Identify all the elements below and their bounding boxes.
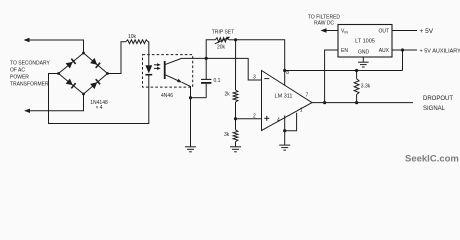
optocoupler U2 4N46 dashed package bbox=[143, 55, 193, 88]
resistor 3k bbox=[235, 119, 237, 130]
svg-text:3: 3 bbox=[253, 75, 256, 81]
node: divider / plus input bbox=[234, 117, 237, 120]
svg-text:2k: 2k bbox=[225, 92, 231, 98]
wire EN to output bbox=[325, 50, 338, 103]
svg-text:10k: 10k bbox=[128, 34, 137, 40]
svg-text:SIGNAL: SIGNAL bbox=[423, 106, 446, 112]
svg-text:0.1: 0.1 bbox=[214, 78, 221, 84]
wire negative DC rail: left vertex down and right to opto LED cathode bbox=[49, 74, 149, 124]
ground G1 bbox=[185, 146, 196, 148]
wire node up to trimpot left end bbox=[206, 40, 215, 59]
wire pot right lead bbox=[229, 39, 236, 41]
bridge diode D-LR (bottom to right) bbox=[90, 82, 97, 89]
comparator output pin 7 line bbox=[312, 102, 413, 104]
svg-text:1: 1 bbox=[300, 107, 303, 113]
svg-text:POWER: POWER bbox=[10, 74, 29, 80]
wire pin3 node to comparator minus input bbox=[206, 58, 261, 80]
svg-text:3.3k: 3.3k bbox=[361, 84, 371, 90]
svg-text:8: 8 bbox=[286, 70, 289, 76]
wire resistor to LED anode bbox=[147, 42, 150, 65]
bridge rectifier CR1 1N4148 x4 : edges bbox=[59, 53, 108, 94]
svg-text:2: 2 bbox=[253, 114, 256, 120]
node: pot / 2k / supply bbox=[234, 38, 237, 41]
bridge diode D-UR (top to right) bbox=[90, 58, 97, 65]
VIN input wire + arrow bbox=[327, 30, 339, 32]
svg-text:RAW DC: RAW DC bbox=[314, 21, 334, 27]
svg-text:AUX: AUX bbox=[379, 48, 390, 54]
svg-text:20k: 20k bbox=[217, 44, 226, 50]
node: emitter/cap ground junction bbox=[189, 96, 192, 99]
svg-text:VIN: VIN bbox=[341, 28, 348, 34]
wire pot node down to 2k bbox=[235, 40, 237, 90]
svg-text:SeekIC.com: SeekIC.com bbox=[405, 153, 459, 164]
wire node to cap bottom bbox=[191, 97, 207, 99]
svg-text:TO SECONDARY: TO SECONDARY bbox=[10, 61, 50, 67]
bridge diode D-UL (left to top) bbox=[66, 62, 73, 69]
node supply/pin8 bbox=[283, 69, 286, 72]
ground G3 bbox=[279, 144, 290, 146]
AUX wire bbox=[392, 49, 417, 51]
wire node down to ground bbox=[190, 98, 192, 147]
resistor 3.3k pull-up bbox=[355, 69, 358, 72]
opto photon arrows bbox=[154, 64, 159, 66]
wire supply rail from pot node to regulator aux bbox=[236, 40, 285, 86]
pin 4 wire bbox=[284, 115, 286, 144]
svg-text:TRIP SET: TRIP SET bbox=[212, 30, 234, 36]
AC terminal arrow top bbox=[24, 38, 30, 42]
capacitor 0.1 bbox=[205, 58, 207, 79]
svg-text:7: 7 bbox=[306, 93, 309, 99]
svg-text:DROPOUT: DROPOUT bbox=[423, 96, 453, 102]
svg-text:LT 1005: LT 1005 bbox=[355, 39, 375, 45]
pin 1 wire bbox=[285, 113, 297, 131]
svg-text:GND: GND bbox=[358, 50, 370, 56]
svg-text:OUT: OUT bbox=[378, 28, 389, 34]
AC terminal arrow bottom bbox=[24, 109, 30, 113]
svg-text:+ 5V AUXILIARY: + 5V AUXILIARY bbox=[420, 48, 460, 54]
svg-text:OF AC: OF AC bbox=[10, 68, 25, 74]
regulator U3 LT1005 bbox=[338, 25, 392, 58]
svg-text:3k: 3k bbox=[224, 132, 230, 138]
svg-text:4: 4 bbox=[277, 117, 280, 123]
resistor 2k bbox=[233, 90, 238, 102]
wire AC input bottom lead bbox=[29, 94, 84, 111]
wire aux node down to supply rail bbox=[402, 50, 404, 71]
node: comparator minus input node bbox=[205, 57, 208, 60]
wire positive DC: right vertex up to resistor bbox=[108, 42, 126, 74]
OUT wire bbox=[392, 30, 417, 32]
svg-text:× 4: × 4 bbox=[95, 105, 102, 111]
comparator U1 LM311 bbox=[262, 71, 313, 131]
svg-text:LM 311: LM 311 bbox=[275, 93, 293, 99]
svg-text:TRANSFORMER: TRANSFORMER bbox=[10, 82, 49, 88]
wire to comparator plus input pin 2 bbox=[236, 118, 262, 120]
wire collector to node bbox=[182, 57, 207, 59]
opto LED bbox=[145, 65, 152, 73]
wire AC input top lead bbox=[29, 40, 84, 53]
plus sign bbox=[264, 117, 269, 119]
svg-text:+ 5V: + 5V bbox=[420, 28, 434, 35]
svg-text:EN: EN bbox=[341, 48, 348, 54]
wire emitter down to ground node bbox=[182, 82, 191, 98]
minus sign bbox=[264, 78, 269, 80]
opto phototransistor Q1 bbox=[164, 61, 166, 79]
svg-text:4N46: 4N46 bbox=[161, 93, 173, 99]
GND pin + ground G4 bbox=[362, 57, 364, 62]
bridge diode D-LL (left to bottom) bbox=[66, 79, 73, 86]
resistor 10k bbox=[126, 40, 148, 44]
trimpot TRIP SET 20k bbox=[215, 38, 228, 42]
ground G2 bbox=[230, 146, 241, 148]
